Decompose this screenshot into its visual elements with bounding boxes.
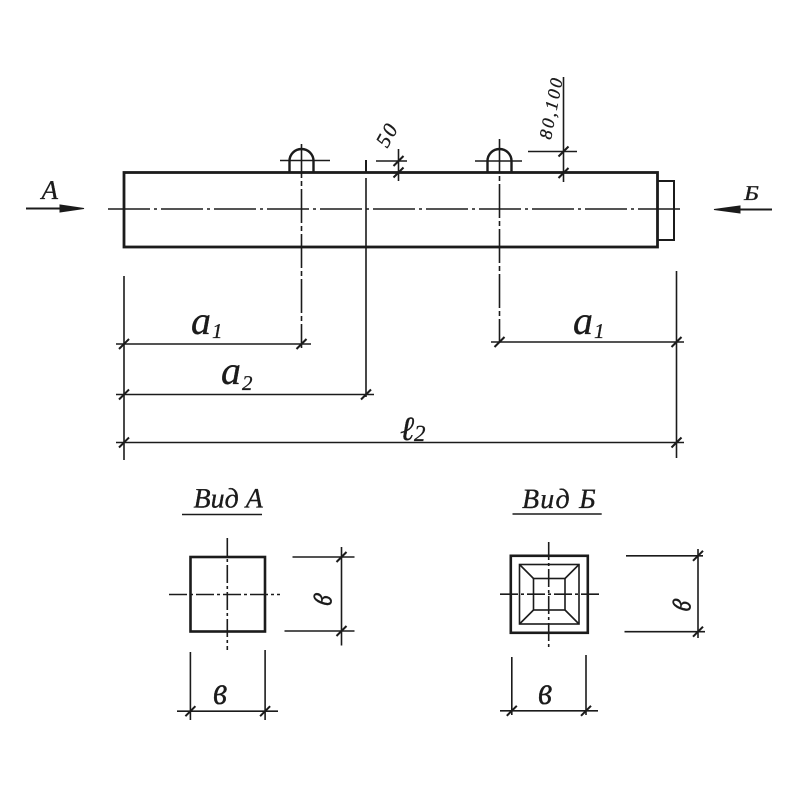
svg-text:А: А	[40, 175, 59, 205]
svg-text:1: 1	[212, 319, 223, 343]
svg-text:a: a	[573, 298, 593, 343]
svg-text:1: 1	[594, 319, 605, 343]
svg-text:2: 2	[414, 421, 426, 446]
svg-text:a: a	[221, 348, 241, 393]
svg-text:2: 2	[242, 371, 253, 395]
svg-text:в: в	[538, 668, 552, 713]
svg-text:в: в	[213, 668, 227, 713]
svg-text:80,100: 80,100	[535, 74, 567, 141]
svg-text:ℓ: ℓ	[400, 411, 414, 448]
svg-text:в: в	[654, 593, 700, 615]
svg-text:в: в	[295, 587, 341, 609]
svg-text:50: 50	[371, 118, 404, 151]
svg-text:Вид А: Вид А	[194, 484, 264, 515]
svg-text:Вид Б: Вид Б	[522, 484, 597, 515]
svg-text:Б: Б	[743, 181, 759, 205]
svg-text:a: a	[191, 298, 211, 343]
